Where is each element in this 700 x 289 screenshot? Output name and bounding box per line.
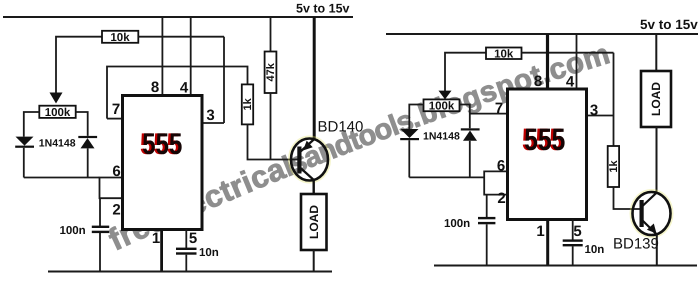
wire: 10k right to pin3 drop — [138, 36, 224, 38]
svg-text:7: 7 — [495, 100, 503, 117]
wire: 100n to ground rail — [99, 233, 101, 272]
wire: vertical 10k/pin3 — [223, 37, 225, 123]
wire: 10k right across pins to 1k drop — [522, 52, 614, 54]
wire: 100k right to D2 — [76, 112, 88, 136]
svg-text:LOAD: LOAD — [649, 82, 663, 116]
svg-text:LOAD: LOAD — [307, 205, 321, 239]
wire: pin 5 to 10n (right) — [572, 220, 574, 240]
wire: rail to BD140 emitter (thick) — [313, 17, 316, 139]
resistor 1k (left) — [242, 84, 254, 124]
pot wiper arrowhead (right) — [439, 91, 452, 100]
wire: pin 4 to rail — [576, 34, 578, 89]
IC U2 555 (right) — [508, 89, 587, 220]
svg-text:8: 8 — [534, 73, 542, 90]
diode D1 1N4148 (left, anode up) — [15, 137, 34, 178]
svg-text:4: 4 — [180, 80, 189, 97]
transistor Q2 BD139 (NPN) — [632, 191, 672, 236]
wire: 100k left to D1 — [24, 112, 40, 137]
wire: 100k left to D3 — [409, 105, 423, 130]
resistor 10k (right) — [486, 48, 522, 61]
resistor 1k (right) — [608, 146, 620, 187]
svg-text:BD139: BD139 — [613, 236, 659, 253]
wire: 10n to ground (right) — [572, 246, 574, 265]
wire: pin 1 to ground (thick) — [160, 230, 163, 272]
wire: pin 7 stub — [107, 118, 123, 120]
wire: ground rail left — [48, 271, 332, 273]
svg-text:5: 5 — [189, 230, 197, 247]
transistor Q1 BD140 (PNP) — [290, 138, 329, 182]
load box LOAD (left) — [301, 194, 327, 250]
op-amp/IC U1 555 (left) — [123, 96, 203, 230]
wire: 10n to ground — [185, 255, 187, 272]
wire: loop pin7 over IC to 1k — [107, 67, 248, 119]
wire: pin 3 stub — [202, 122, 224, 124]
svg-text:BD140: BD140 — [318, 119, 364, 136]
svg-text:5v to 15v: 5v to 15v — [296, 2, 350, 16]
watermark freeelectricalsandtools.blogspot.com — [103, 37, 614, 257]
wire: 100n to ground (right) — [486, 224, 488, 265]
svg-text:7: 7 — [112, 101, 120, 118]
wire: pin 8 to rail (thick) — [546, 34, 549, 89]
wire: LOAD to collector (right) — [656, 127, 658, 192]
wire: bracket pins 6-2 (right) — [484, 171, 507, 194]
wire: pin 1 to ground (thick, right) — [546, 220, 549, 266]
svg-text:3: 3 — [590, 102, 598, 119]
diode D3 1N4148 (left, anode up) — [400, 129, 419, 177]
wire: pin 4 to rail — [190, 17, 192, 96]
svg-text:555: 555 — [142, 128, 182, 161]
wire: junction to 100n — [99, 198, 101, 226]
wire: +V top rail right — [386, 33, 698, 35]
svg-text:8: 8 — [151, 79, 159, 96]
pot wiper arrowhead — [50, 93, 63, 104]
wire: 1k bottom to BD139 base — [614, 187, 640, 209]
svg-text:10n: 10n — [199, 247, 219, 259]
svg-text:1k: 1k — [608, 160, 620, 173]
svg-text:6: 6 — [497, 157, 505, 174]
wire: rail to 47k top — [270, 17, 272, 52]
wire: 100k right to D4 — [460, 105, 470, 129]
wire: emitter to ground (right) — [656, 235, 658, 266]
wire: diodes bottom to pins 6/2 bracket — [24, 177, 100, 179]
svg-text:47k: 47k — [265, 62, 277, 81]
svg-text:10n: 10n — [585, 244, 605, 256]
svg-text:6: 6 — [112, 163, 120, 180]
svg-text:2: 2 — [112, 202, 120, 219]
capacitor 100n (left) — [92, 226, 109, 233]
wire: pin 7 stub (right) — [470, 113, 508, 115]
svg-text:2: 2 — [497, 190, 505, 207]
svg-text:1: 1 — [152, 230, 160, 247]
svg-text:1k: 1k — [242, 97, 254, 110]
wire: bracket pins 6-2 — [100, 178, 123, 199]
wire: junction to 100n (right) — [486, 195, 488, 218]
capacitor 10n (left) — [176, 248, 197, 255]
resistor 10k (left) — [102, 31, 138, 44]
svg-text:5: 5 — [573, 223, 581, 240]
wire: vertical junction to 1k top — [613, 53, 615, 146]
capacitor 10n (right) — [563, 239, 583, 246]
wire: LOAD to ground rail — [313, 250, 315, 272]
wire: collector to LOAD — [313, 180, 315, 194]
potentiometer 100k (left) — [39, 106, 75, 119]
svg-text:1N4148: 1N4148 — [423, 131, 460, 143]
svg-text:3: 3 — [206, 107, 214, 124]
svg-text:1N4148: 1N4148 — [39, 138, 76, 150]
svg-text:100n: 100n — [444, 218, 470, 230]
wire: pin 3 stub (right) — [587, 115, 614, 117]
svg-text:555: 555 — [524, 122, 565, 157]
svg-text:5v to 15v: 5v to 15v — [640, 17, 698, 32]
svg-text:1: 1 — [536, 223, 544, 240]
svg-text:100k: 100k — [429, 100, 455, 112]
diode D2 1N4148 (right, cathode up) — [78, 136, 97, 178]
wire: ground rail right — [434, 265, 697, 267]
diode D4 1N4148 (right, cathode up) — [461, 128, 480, 177]
wire: pin 8 to rail — [161, 17, 163, 96]
capacitor 100n (right) — [478, 217, 495, 224]
wire: 1k bottom to base wire — [248, 124, 299, 159]
wire: 10k left to pot wiper (right) — [445, 53, 486, 92]
load box LOAD (right) — [641, 71, 671, 127]
resistor 47k — [265, 52, 277, 94]
wire: 10k left to pot wiper — [56, 37, 102, 94]
svg-text:100n: 100n — [60, 225, 86, 237]
wire: diodes bottom to bracket (right) — [409, 176, 484, 178]
svg-text:10k: 10k — [110, 32, 130, 44]
svg-text:4: 4 — [566, 74, 575, 91]
wire: +V top rail left — [3, 16, 353, 18]
wire: 47k bottom to base wire — [270, 93, 272, 160]
wire: pin 5 to 10n — [185, 230, 187, 249]
wire: rail to LOAD (right) — [655, 34, 657, 71]
potentiometer 100k (right) — [424, 99, 460, 112]
svg-text:10k: 10k — [494, 48, 514, 60]
svg-text:100k: 100k — [45, 107, 71, 119]
